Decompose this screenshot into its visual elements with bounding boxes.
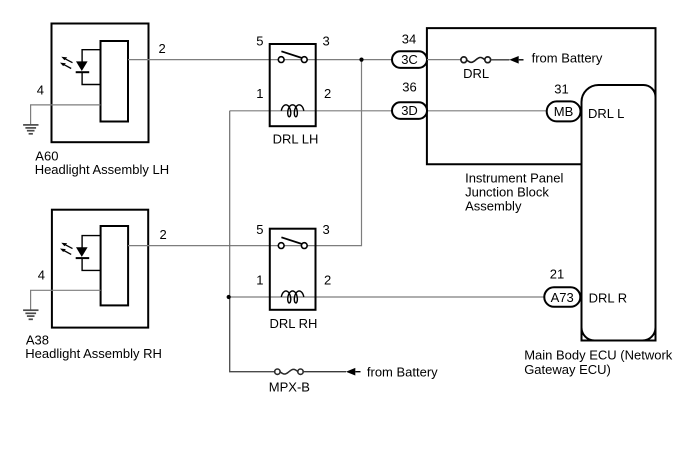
wire vertical: DRL coils pin1 bus down to MPX-B	[229, 111, 231, 297]
svg-text:Headlight Assembly LH: Headlight Assembly LH	[35, 162, 169, 177]
svg-text:31: 31	[554, 82, 568, 97]
relay DRL RH coil	[281, 291, 304, 303]
svg-text:4: 4	[37, 82, 44, 97]
wire A60 LED cathode lead	[82, 72, 100, 84]
relay DRL LH box	[270, 44, 316, 126]
LED A60 light emission arrow 1	[61, 57, 72, 63]
LED D2 cathode bar	[76, 257, 90, 259]
wire row C: A38 pin2 to DRL RH switch, up to node	[128, 60, 362, 246]
svg-text:3C: 3C	[401, 52, 418, 67]
wire A38 pin4 to ground	[31, 290, 101, 310]
svg-text:5: 5	[256, 34, 263, 49]
svg-text:Gateway ECU): Gateway ECU)	[524, 362, 611, 377]
svg-text:Assembly: Assembly	[465, 199, 522, 214]
LED D2 in A38 (triangle)	[76, 247, 88, 257]
svg-text:5: 5	[256, 222, 263, 237]
svg-text:36: 36	[402, 79, 416, 94]
relay DRL RH switch contact circle right	[301, 243, 307, 249]
svg-text:21: 21	[550, 267, 564, 282]
svg-text:A73: A73	[551, 290, 574, 305]
fuse MPX-B left terminal circle	[275, 369, 280, 374]
arrow from Battery (top)	[509, 56, 523, 64]
svg-text:Main Body ECU (Network: Main Body ECU (Network	[524, 347, 673, 362]
headlight assembly LH A60 outer box	[52, 24, 149, 143]
ECU bottom-right corner arc	[643, 328, 656, 341]
relay DRL LH switch blade	[281, 51, 301, 58]
svg-text:3: 3	[323, 222, 330, 237]
svg-text:4: 4	[38, 267, 45, 282]
wire 3C to fuse DRL	[427, 59, 461, 61]
fuse MPX-B right terminal circle	[298, 369, 303, 374]
arrow from Battery (bottom)	[346, 368, 361, 376]
relay DRL LH switch contact circle left	[278, 57, 284, 63]
svg-text:2: 2	[324, 86, 331, 101]
wire A38 LED anode lead	[82, 236, 101, 248]
svg-text:2: 2	[160, 227, 167, 242]
relay DRL LH coil	[281, 105, 304, 117]
wire A38 LED cathode lead	[82, 258, 101, 270]
svg-text:DRL R: DRL R	[589, 291, 628, 306]
LED D1 in A60 (triangle)	[76, 61, 88, 71]
relay DRL LH switch contact circle right	[301, 57, 307, 63]
wire row D: DRL RH coil row to A73	[229, 296, 545, 298]
svg-text:MPX-B: MPX-B	[269, 379, 310, 394]
svg-text:from Battery: from Battery	[532, 51, 603, 66]
fuse DRL element (wavy)	[467, 58, 485, 63]
ground symbol A60	[23, 125, 38, 134]
wire A60 LED anode lead	[82, 50, 100, 62]
fuse MPX-B element (wavy)	[280, 369, 298, 374]
svg-text:DRL RH: DRL RH	[270, 316, 318, 331]
relay DRL RH box	[270, 229, 316, 310]
svg-text:34: 34	[402, 31, 416, 46]
svg-text:from Battery: from Battery	[367, 364, 438, 379]
headlight assembly RH A38 outer box	[52, 210, 148, 328]
svg-text:2: 2	[324, 273, 331, 288]
relay DRL RH switch contact circle left	[278, 243, 284, 249]
ECU bottom-left corner arc	[582, 328, 595, 341]
A60 connector inner rectangle	[101, 41, 129, 122]
relay DRL RH switch blade	[281, 237, 301, 244]
wire MPX-B to arrow	[303, 371, 346, 373]
svg-text:Headlight Assembly RH: Headlight Assembly RH	[25, 346, 162, 361]
ground symbol A38	[23, 310, 38, 319]
svg-text:1: 1	[256, 273, 263, 288]
connector oval 3D	[392, 102, 427, 119]
svg-text:3D: 3D	[401, 103, 418, 118]
svg-text:DRL: DRL	[463, 66, 489, 81]
connector oval A73	[544, 287, 580, 307]
svg-text:DRL L: DRL L	[588, 106, 624, 121]
LED A38 light emission arrow 1	[61, 243, 72, 249]
LED A60 light emission arrow 2	[60, 63, 71, 69]
svg-text:Junction Block: Junction Block	[465, 184, 549, 199]
connector oval 3C	[392, 51, 427, 68]
fuse DRL right terminal circle	[485, 57, 491, 63]
svg-text:1: 1	[256, 86, 263, 101]
instrument panel junction block box	[427, 28, 656, 164]
LED A38 light emission arrow 2	[60, 249, 71, 255]
svg-text:MB: MB	[554, 104, 574, 119]
wire A60 pin4 to ground	[31, 105, 101, 125]
wire row A: A60 pin2 to DRL LH switch to 3C	[128, 59, 393, 61]
svg-text:2: 2	[159, 41, 166, 56]
node junction dot row D x229	[227, 295, 231, 299]
svg-text:3: 3	[323, 34, 330, 49]
fuse DRL left terminal circle	[461, 57, 467, 63]
svg-text:DRL LH: DRL LH	[273, 131, 319, 146]
LED D1 cathode bar	[76, 71, 90, 73]
connector oval MB	[547, 101, 581, 121]
A38 connector inner rectangle	[101, 226, 129, 305]
svg-text:Instrument Panel: Instrument Panel	[465, 170, 563, 185]
node junction dot row A x361	[359, 58, 363, 62]
main body ECU U1 outline	[582, 85, 656, 341]
wire row B: DRL LH coil row to 3D and MB	[230, 110, 547, 112]
wire fuse DRL to arrow	[491, 59, 510, 61]
